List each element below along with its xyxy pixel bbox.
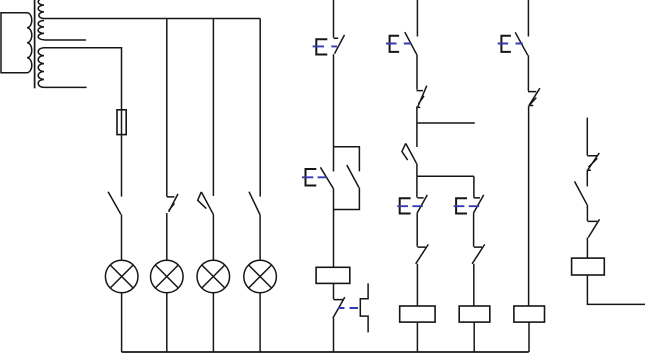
pushbutton E (NC) column A xyxy=(334,35,345,54)
pushbutton E (NO) in column A xyxy=(320,147,333,189)
wire: lamp 4 to bottom bus xyxy=(259,293,261,352)
wire: column B upper xyxy=(416,55,418,90)
pushbutton E (NO) column C xyxy=(515,32,528,55)
bottom bus wire xyxy=(122,351,529,353)
pushbutton E (NC) lower right column xyxy=(473,195,483,213)
linked auxiliary contact (jog) xyxy=(360,283,368,332)
wire: lamp 2 to bottom bus xyxy=(166,293,168,352)
contact (NC) right branch xyxy=(588,219,600,237)
wire: coil K2 to bottom bus xyxy=(416,322,418,352)
wire: fuse through-line down to switch 1 xyxy=(121,110,123,197)
label E xyxy=(501,36,511,52)
wire: column B to E pushbutton xyxy=(416,176,418,197)
relay coil K4 xyxy=(514,306,545,322)
wire: column A top feeder xyxy=(333,0,335,38)
lamp H4 xyxy=(244,260,277,293)
wire: secondary mid tap stub xyxy=(44,39,86,41)
wire: column C top feeder xyxy=(527,0,529,37)
contact (NC with flag) column B xyxy=(417,86,427,108)
contact (NC) above coil K2 xyxy=(416,244,429,263)
contact (NC) above coil K3 xyxy=(472,244,485,263)
contact (NC with flag) column C xyxy=(528,88,540,105)
wire: lower column B xyxy=(416,213,418,246)
label E xyxy=(316,39,327,54)
switch S3 (with flag) xyxy=(198,192,214,215)
wire xyxy=(586,205,588,221)
transformer secondary winding upper xyxy=(38,0,44,40)
wire: switch 4 to lamp 4 xyxy=(259,215,261,261)
relay coil K2 xyxy=(400,306,435,322)
lamp H3 xyxy=(197,260,230,293)
wire: bus drop to switch 2 xyxy=(166,19,168,197)
mechanical link (blue dashes) xyxy=(338,307,358,309)
switch below coil K1 (NC) xyxy=(333,297,345,318)
wire: column C upper xyxy=(527,55,529,91)
relay coil K5 xyxy=(572,258,605,275)
wire: switch 2 to lamp 2 xyxy=(166,213,168,260)
wire: column C long run to coil K4 xyxy=(528,106,530,306)
wire: column B to junction 2 xyxy=(416,163,418,176)
switch S1 xyxy=(108,192,121,215)
wire: bypass branch bottom xyxy=(334,188,360,210)
wire: to coil K2 xyxy=(416,264,418,306)
wire: lamp 3 to bottom bus xyxy=(212,293,214,352)
wire: column B junction1 to flag switch xyxy=(416,123,418,147)
contact (NC with flag) right branch xyxy=(587,153,599,170)
label E xyxy=(400,198,411,213)
wire: top bus from secondary tap xyxy=(44,18,260,20)
wire: column B top feeder xyxy=(416,0,418,37)
lamp H1 xyxy=(105,260,138,293)
label E xyxy=(390,36,400,52)
wire: switch 1 to lamp 1 xyxy=(121,215,123,261)
switch S2 (NC with flag) xyxy=(167,194,178,212)
contact (NO) right branch xyxy=(575,181,588,204)
wire: junction 1 stub going right xyxy=(417,122,475,124)
wire: junction 2 down right branch xyxy=(473,176,475,197)
transformer secondary winding lower xyxy=(38,48,44,88)
wire: bypass branch top xyxy=(334,147,360,172)
fuse F1 xyxy=(117,110,126,135)
wire: junction 2 horizontal xyxy=(417,175,474,177)
wire: bus drop to switch 4 xyxy=(259,19,261,197)
wire: switch 3 to lamp 3 xyxy=(212,215,214,261)
pushbutton E (NO) column B xyxy=(405,32,417,55)
label E xyxy=(456,198,467,213)
wire xyxy=(586,170,588,187)
lamp H2 xyxy=(151,260,184,293)
wire: column B to junction 1 xyxy=(416,106,418,123)
wire: coil K3 to bottom bus xyxy=(473,322,475,352)
wire: right branch top stub xyxy=(586,118,588,156)
pushbutton E (NC) lower column B xyxy=(417,195,427,213)
transformer core xyxy=(34,0,36,88)
contact (with flag) column B xyxy=(402,143,417,163)
switch S4 xyxy=(249,192,260,215)
wire: lower right column xyxy=(473,213,475,246)
wire: lamp 1 to bottom bus xyxy=(121,293,123,352)
relay coil K3 xyxy=(459,306,490,322)
wire: secondary lower winding top lead to fuse column xyxy=(44,48,122,110)
wire: to coil K3 xyxy=(473,264,475,306)
wire: column A between switches xyxy=(333,54,335,147)
wire: secondary lower winding bottom stub xyxy=(44,86,87,88)
label E xyxy=(306,169,317,186)
wire: coil K5 down and out right xyxy=(587,275,645,304)
relay coil K1 xyxy=(316,267,350,283)
wire: coil to bottom switch xyxy=(333,283,335,299)
contact in bypass branch xyxy=(347,165,359,188)
wire: column A to coil xyxy=(333,189,335,268)
wire: bus drop to switch 3 xyxy=(212,19,214,196)
transformer primary loop wire xyxy=(1,13,27,73)
wire: column A to bottom bus xyxy=(333,318,335,352)
wire: coil K4 to bottom bus xyxy=(528,322,530,352)
transformer primary winding xyxy=(27,13,32,73)
wire: to coil K5 xyxy=(586,238,588,259)
